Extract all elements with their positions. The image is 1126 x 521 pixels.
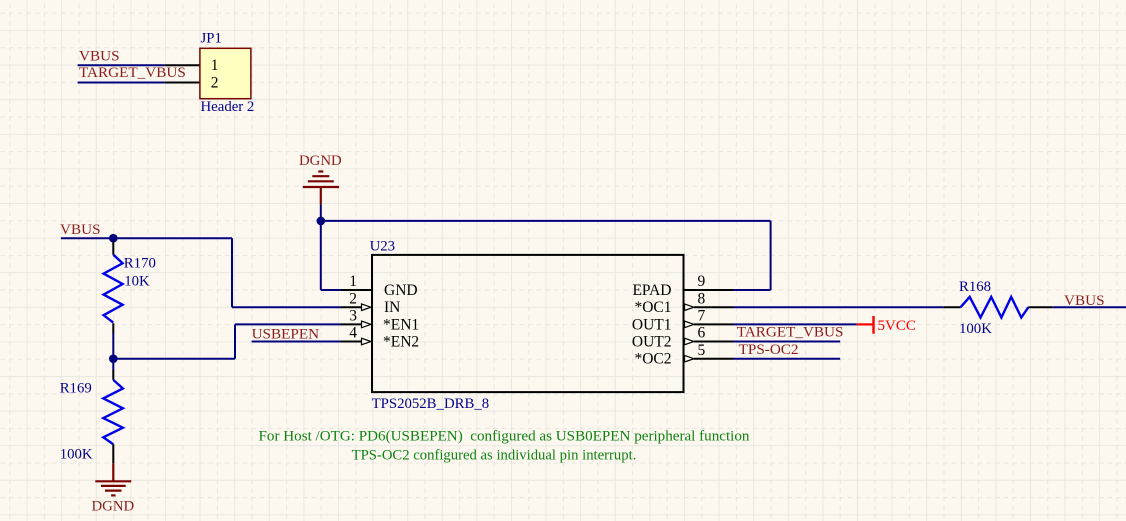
wire node C right: [113, 358, 235, 360]
junction node B (VBUS / R170): [109, 234, 118, 243]
junction node A (DGND net): [317, 217, 326, 226]
pin 9 EPAD: [684, 289, 734, 291]
wire: [78, 82, 165, 84]
wire pin 7 to 5VCC: [733, 323, 857, 325]
wire to pin 1: [321, 289, 341, 291]
svg-text:8: 8: [698, 290, 706, 307]
svg-text:DGND: DGND: [92, 499, 135, 515]
svg-text:GND: GND: [384, 282, 418, 299]
wire pin 6 OUT2 net: [733, 341, 840, 343]
wire pin 5 *OC2 net: [733, 358, 840, 360]
wire R168 to VBUS: [1052, 306, 1126, 308]
wire node A to EPAD column: [321, 220, 771, 222]
power port 5VCC: [857, 323, 873, 325]
pin 2 IN: [341, 306, 362, 308]
connector JP1 pin 2: [165, 82, 200, 84]
pin 4 *EN2: [341, 341, 362, 343]
svg-text:1: 1: [349, 273, 357, 290]
junction node C (divider mid): [109, 354, 118, 363]
wire USBEPEN to pin 4: [252, 341, 341, 343]
power port DGND (bottom): [95, 463, 131, 495]
svg-text:10K: 10K: [124, 273, 150, 289]
wire VBUS corner down: [231, 238, 233, 307]
svg-text:R170: R170: [124, 255, 156, 271]
svg-text:7: 7: [698, 308, 706, 325]
pin 5 *OC2: [685, 355, 694, 362]
svg-text:2: 2: [349, 290, 357, 307]
svg-text:VBUS: VBUS: [60, 221, 101, 238]
svg-text:TARGET_VBUS: TARGET_VBUS: [737, 324, 844, 341]
svg-text:TPS-OC2: TPS-OC2: [739, 341, 799, 358]
wire: [78, 64, 165, 66]
svg-text:For Host /OTG: PD6(USBEPEN) c: For Host /OTG: PD6(USBEPEN) configured a…: [259, 428, 750, 444]
svg-text:5VCC: 5VCC: [878, 318, 916, 334]
wire EPAD column down: [770, 221, 772, 290]
svg-text:100K: 100K: [959, 321, 992, 337]
wire up to EN1 row: [234, 324, 236, 358]
wire node A down to GND pin row: [320, 221, 322, 290]
svg-text:VBUS: VBUS: [1064, 292, 1105, 309]
svg-text:3: 3: [349, 308, 357, 325]
pin 1 GND: [341, 289, 372, 291]
svg-text:*EN1: *EN1: [383, 316, 419, 333]
wire pin 8 to R168: [733, 306, 943, 308]
svg-text:JP1: JP1: [201, 31, 222, 47]
svg-text:*OC1: *OC1: [634, 299, 671, 316]
svg-text:R169: R169: [60, 381, 92, 397]
svg-text:1: 1: [211, 57, 219, 74]
svg-text:2: 2: [211, 75, 219, 92]
svg-text:IN: IN: [384, 299, 400, 316]
svg-text:U23: U23: [370, 239, 395, 255]
wire to pin 2 IN: [232, 306, 341, 308]
svg-text:100K: 100K: [60, 447, 93, 463]
connector JP1 body: [200, 48, 251, 98]
svg-text:9: 9: [698, 273, 706, 290]
pin 6 OUT2: [685, 338, 694, 345]
resistor R168: [943, 306, 960, 308]
connector JP1 pin 1: [165, 64, 200, 66]
svg-text:OUT1: OUT1: [632, 316, 672, 333]
IC U23 body: [372, 255, 684, 392]
svg-text:USBEPEN: USBEPEN: [252, 326, 320, 343]
svg-text:4: 4: [349, 325, 357, 342]
wire to pin 3 *EN1: [235, 323, 341, 325]
power port DGND (top): [303, 172, 339, 205]
wire DGND stem to node: [320, 204, 322, 221]
svg-text:VBUS: VBUS: [79, 48, 120, 65]
svg-text:TPS-OC2 configured as individu: TPS-OC2 configured as individual pin int…: [352, 448, 637, 464]
svg-text:R168: R168: [959, 279, 991, 295]
svg-text:TPS2052B_DRB_8: TPS2052B_DRB_8: [372, 396, 490, 412]
svg-text:*EN2: *EN2: [383, 333, 419, 350]
pin 8 *OC1: [685, 304, 694, 311]
svg-text:TARGET_VBUS: TARGET_VBUS: [79, 64, 186, 81]
pin 7 OUT1: [685, 321, 694, 328]
resistor R169: [112, 359, 114, 370]
svg-text:DGND: DGND: [299, 153, 342, 169]
svg-text:*OC2: *OC2: [634, 351, 671, 368]
svg-text:EPAD: EPAD: [632, 282, 671, 299]
pin 3 *EN1: [341, 323, 362, 325]
svg-text:5: 5: [698, 342, 706, 359]
wire VBUS horizontal: [61, 237, 232, 239]
svg-text:OUT2: OUT2: [632, 333, 672, 350]
svg-text:6: 6: [698, 325, 706, 342]
svg-text:Header 2: Header 2: [201, 99, 255, 115]
wire to pin 9: [733, 289, 771, 291]
resistor R170: [112, 242, 114, 255]
